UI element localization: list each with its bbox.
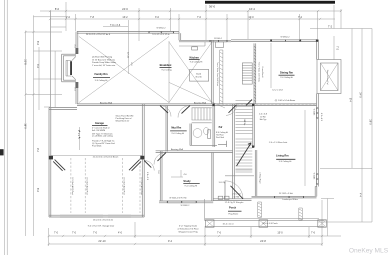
svg-text:21'-10 1/2 x 23'-0 1/2 Beam: 21'-10 1/2 x 23'-0 1/2 Beam — [93, 156, 119, 158]
svg-text:9'-0 Ceiling Ht: 9'-0 Ceiling Ht — [280, 76, 293, 79]
svg-text:W 7462 x 3 Hdr: W 7462 x 3 Hdr — [279, 193, 293, 195]
svg-text:7'-6 x 4'-6: 7'-6 x 4'-6 — [110, 24, 121, 27]
svg-text:24'-8: 24'-8 — [260, 239, 266, 243]
svg-text:28'-0 x 6'-0 Porch: 28'-0 x 6'-0 Porch — [262, 223, 278, 225]
svg-text:7'-8: 7'-8 — [90, 16, 95, 19]
svg-text:16'-0 1/2 x 8'-0 1/2 dn: 16'-0 1/2 x 8'-0 1/2 dn — [93, 219, 114, 221]
svg-text:20'-10 1/2 x 23'-0 1/2 dn &: 20'-10 1/2 x 23'-0 1/2 dn & — [86, 34, 111, 36]
svg-text:Trans. Wdw. Over Wall Work: Trans. Wdw. Over Wall Work — [216, 62, 219, 86]
svg-text:Wrapped Crown Pntg: Wrapped Crown Pntg — [178, 231, 197, 234]
svg-text:4'-0: 4'-0 — [118, 232, 123, 235]
svg-text:Ped. Sink: Ped. Sink — [216, 137, 224, 139]
svg-text:W 3046: W 3046 — [313, 173, 315, 180]
svg-text:Stone Veneer Fpl: Stone Veneer Fpl — [326, 70, 329, 85]
svg-text:Landscape Wdws: Landscape Wdws — [282, 199, 298, 201]
svg-text:7'-6: 7'-6 — [311, 232, 316, 235]
svg-text:W 4862-2: W 4862-2 — [156, 28, 166, 30]
svg-text:Flag Stone: Flag Stone — [229, 212, 240, 215]
svg-text:W 3046-2: W 3046-2 — [214, 38, 222, 40]
svg-text:16'-0 x 12'-0: 16'-0 x 12'-0 — [223, 224, 235, 226]
svg-text:Bearing Wall: Bearing Wall — [171, 148, 184, 151]
svg-text:8'-0: 8'-0 — [36, 188, 39, 193]
svg-text:Dr Hdr: Dr Hdr — [260, 115, 266, 118]
svg-text:7'-0: 7'-0 — [93, 232, 98, 235]
svg-text:7'-6: 7'-6 — [217, 232, 222, 235]
svg-text:6'-8 x 3'-0: 6'-8 x 3'-0 — [146, 172, 148, 180]
svg-text:5'-0: 5'-0 — [157, 170, 159, 173]
svg-text:3'-0: 3'-0 — [36, 64, 39, 69]
svg-text:9'-4: 9'-4 — [168, 240, 173, 243]
svg-text:7'-2: 7'-2 — [328, 24, 333, 28]
svg-text:29'-0: 29'-0 — [369, 119, 372, 125]
svg-text:2'-0 x 6'-8: 2'-0 x 6'-8 — [259, 114, 267, 116]
svg-text:8'-0: 8'-0 — [36, 41, 39, 46]
svg-text:2'-0 x 6'-8: 2'-0 x 6'-8 — [232, 194, 240, 196]
svg-text:Hdr Typ: Hdr Typ — [260, 118, 267, 121]
svg-text:Bearing Wall: Bearing Wall — [100, 101, 113, 104]
svg-text:9'-0 Ceiling Ht: 9'-0 Ceiling Ht — [190, 60, 203, 63]
svg-text:9'-0 Ceiling Ht: 9'-0 Ceiling Ht — [185, 184, 198, 187]
svg-text:W 4862-2: W 4862-2 — [280, 36, 290, 38]
svg-text:16'-0 4x6 ACQ Post: 16'-0 4x6 ACQ Post — [71, 177, 74, 195]
svg-text:8'-0: 8'-0 — [55, 7, 60, 11]
svg-text:Fnd. Walls: Fnd. Walls — [92, 146, 101, 148]
svg-text:22'-10: 22'-10 — [98, 239, 106, 243]
svg-text:9'-0 Ceiling Ht: 9'-0 Ceiling Ht — [95, 79, 108, 82]
svg-text:9'-0 x 8'-0 O.H. Garage Door: 9'-0 x 8'-0 O.H. Garage Door — [88, 224, 115, 227]
svg-text:12'-2 x 14'-8: 12'-2 x 14'-8 — [272, 90, 282, 92]
svg-text:W 3046: W 3046 — [313, 109, 315, 116]
svg-text:21'-8: 21'-8 — [24, 59, 27, 65]
svg-text:24'-6: 24'-6 — [122, 7, 128, 11]
svg-text:4'-0 x 4'-0: 4'-0 x 4'-0 — [320, 113, 322, 121]
svg-text:16'-0: 16'-0 — [24, 123, 27, 129]
svg-text:W 3046-2 W.H. Hdr: W 3046-2 W.H. Hdr — [169, 198, 187, 200]
svg-text:OneKey MLS: OneKey MLS — [349, 247, 389, 254]
svg-text:16'-0 4x6 ACQ Post: 16'-0 4x6 ACQ Post — [85, 177, 88, 195]
svg-text:9'-4: 9'-4 — [36, 148, 39, 153]
svg-text:15'-0: 15'-0 — [277, 232, 283, 235]
svg-text:Island: Island — [196, 73, 201, 75]
svg-text:W 3862-2: W 3862-2 — [181, 205, 191, 207]
svg-text:8'-4: 8'-4 — [349, 98, 352, 103]
svg-text:7'-0: 7'-0 — [197, 16, 202, 19]
svg-text:2-Story Foyer: 2-Story Foyer — [258, 172, 261, 184]
svg-text:Dr Hdr: Dr Hdr — [234, 196, 240, 199]
svg-text:14R Up: 14R Up — [243, 119, 245, 125]
svg-text:4'-0: 4'-0 — [183, 174, 186, 176]
svg-text:7'-2: 7'-2 — [336, 46, 339, 51]
svg-text:10'-0 1/2 x 4'-0 1/2 dn: 10'-0 1/2 x 4'-0 1/2 dn — [152, 34, 169, 36]
svg-text:Trans. Wdw. Over Wdw.: Trans. Wdw. Over Wdw. — [258, 62, 261, 83]
svg-text:on all Walls and Ceiling: on all Walls and Ceiling — [92, 136, 113, 138]
svg-text:(4) Short Wall Framing: (4) Short Wall Framing — [92, 56, 112, 59]
svg-text:8'-0 Ceiling Ht: 8'-0 Ceiling Ht — [216, 131, 228, 134]
svg-text:Tile Floor: Tile Floor — [216, 133, 224, 136]
svg-text:12'-0: 12'-0 — [248, 16, 254, 19]
svg-text:1'-0 x 1'-0 Floor Joist: 1'-0 x 1'-0 Floor Joist — [269, 141, 288, 144]
svg-text:Crown Mould: Crown Mould — [261, 66, 264, 77]
svg-text:7'-0: 7'-0 — [72, 232, 77, 235]
svg-text:Family Rm: Family Rm — [94, 72, 108, 76]
svg-text:2'-0: 2'-0 — [66, 16, 71, 19]
svg-text:Wood Storm Dr: Wood Storm Dr — [116, 119, 130, 122]
svg-text:1' max shtl, 16" Joists min.: 1' max shtl, 16" Joists min. — [92, 64, 116, 67]
svg-text:@ 16" Around 2' Wide Op: @ 16" Around 2' Wide Op — [92, 58, 116, 61]
svg-text:9'-0 Ceiling Ht: 9'-0 Ceiling Ht — [171, 132, 184, 135]
svg-text:3'-0: 3'-0 — [155, 16, 160, 19]
svg-text:16'-0 4x6 ACQ Post: 16'-0 4x6 ACQ Post — [123, 177, 126, 195]
svg-text:12'-8 Clg 'B' Shingles: 12'-8 Clg 'B' Shingles — [225, 202, 244, 204]
svg-text:9'-0 Ceiling Ht: 9'-0 Ceiling Ht — [279, 160, 292, 163]
svg-text:Mud Rm: Mud Rm — [171, 127, 182, 130]
svg-text:13'-2: 13'-2 — [122, 16, 128, 19]
svg-text:36 x 66: 36 x 66 — [195, 76, 201, 78]
svg-text:Kitchen: Kitchen — [189, 55, 199, 59]
svg-text:(2) 1-3/4 x 14 dn Beam: (2) 1-3/4 x 14 dn Beam — [275, 100, 296, 102]
svg-text:24'-0: 24'-0 — [359, 92, 362, 98]
svg-text:Bearing Wall: Bearing Wall — [194, 101, 207, 104]
svg-text:6x6 #10 WWM: 6x6 #10 WWM — [92, 130, 105, 132]
svg-text:12'-10: 12'-10 — [126, 52, 128, 59]
svg-text:16'-4: 16'-4 — [249, 7, 255, 11]
svg-text:16'-0 4x6 ACQ Post: 16'-0 4x6 ACQ Post — [140, 177, 143, 195]
svg-text:Breakfast: Breakfast — [160, 63, 172, 67]
svg-text:7'-0: 7'-0 — [54, 232, 59, 235]
svg-text:Dining Rm: Dining Rm — [280, 70, 294, 74]
svg-text:Porch: Porch — [229, 206, 237, 209]
svg-text:Garage: Garage — [95, 121, 104, 125]
svg-text:7'-2: 7'-2 — [298, 16, 303, 19]
svg-text:9'-0 Ceiling: 9'-0 Ceiling — [162, 70, 172, 72]
svg-text:Study: Study — [183, 179, 191, 183]
svg-text:6"-0" Topping Grade: 6"-0" Topping Grade — [179, 225, 198, 227]
svg-text:4'-4: 4'-4 — [359, 193, 362, 198]
svg-text:9'-0 Clg: 9'-0 Clg — [219, 182, 225, 184]
svg-text:Living Rm: Living Rm — [276, 154, 289, 158]
svg-text:36'-0: 36'-0 — [209, 5, 216, 9]
svg-text:w/ Simi-Gloss Tile Floor: w/ Simi-Gloss Tile Floor — [177, 229, 198, 231]
svg-text:Pdr: Pdr — [219, 127, 223, 129]
svg-text:Provide Deep Wider Girder: Provide Deep Wider Girder — [92, 62, 116, 64]
